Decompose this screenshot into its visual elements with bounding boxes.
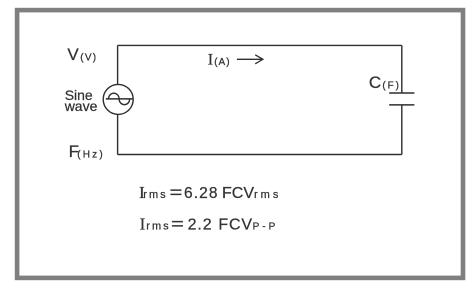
capacitor C [389, 93, 414, 105]
current direction arrow [237, 55, 263, 64]
svg-text:rms: rms [143, 189, 167, 201]
svg-text:V: V [67, 45, 79, 64]
svg-text:FCV: FCV [222, 185, 254, 202]
svg-text:=: = [170, 183, 183, 202]
label I(A) [208, 51, 231, 68]
wire: top rail [118, 44, 402, 46]
svg-text:(V): (V) [80, 52, 97, 63]
svg-text:I: I [140, 214, 146, 233]
wire: left top segment [117, 45, 119, 84]
svg-text:2.2: 2.2 [188, 216, 213, 233]
wire: right top segment [401, 45, 403, 93]
svg-text:I: I [208, 51, 213, 68]
wire: left bottom segment [117, 114, 119, 154]
svg-text:rms: rms [254, 189, 281, 201]
label F(Hz) [69, 142, 105, 161]
formula Irms = 6.28 FCVrms [139, 183, 281, 202]
svg-text:(F): (F) [382, 81, 400, 92]
svg-text:FCV: FCV [218, 216, 252, 233]
label Sine wave [64, 87, 98, 114]
label V(V) [67, 45, 97, 64]
svg-text:(A): (A) [214, 57, 230, 68]
svg-text:rms: rms [146, 221, 170, 233]
wire: right bottom segment [401, 105, 403, 155]
wire: bottom rail [118, 154, 402, 156]
svg-text:wave: wave [64, 98, 98, 114]
label C(F) [369, 73, 401, 92]
svg-text:(Hz): (Hz) [77, 149, 105, 160]
svg-text:P-P: P-P [253, 221, 279, 232]
svg-text:C: C [369, 73, 381, 92]
ac source V1: sine wave generator [103, 84, 133, 114]
svg-text:=: = [171, 215, 184, 234]
formula Irms = 2.2 FCVp-p [140, 214, 279, 233]
svg-text:6.28: 6.28 [184, 185, 219, 202]
